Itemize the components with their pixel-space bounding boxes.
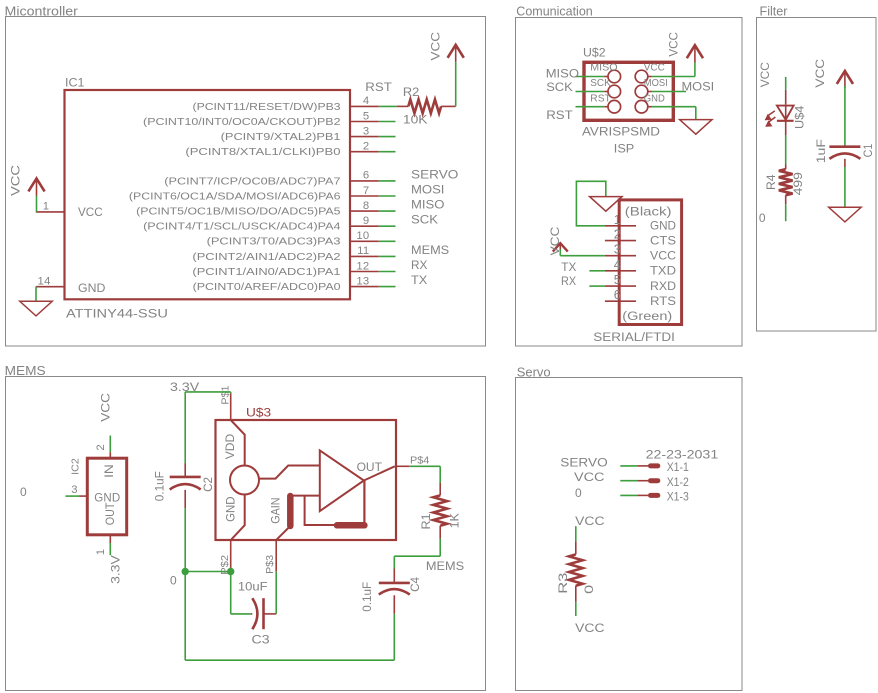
U$3 GND slope	[224, 495, 245, 540]
svg-text:(PCINT6/OC1A/SDA/MOSI/ADC6)PA6: (PCINT6/OC1A/SDA/MOSI/ADC6)PA6	[129, 192, 341, 202]
ground GND left	[20, 287, 52, 316]
svg-text:10K: 10K	[403, 112, 428, 126]
supply VCC left	[9, 165, 45, 212]
svg-text:IN: IN	[102, 464, 116, 478]
svg-text:X1-1: X1-1	[667, 462, 689, 475]
supply VCC U$2	[666, 32, 703, 63]
svg-text:(PCINT5/OC1B/MISO/DO/ADC5)PA5: (PCINT5/OC1B/MISO/DO/ADC5)PA5	[136, 207, 340, 217]
net label SERVO	[560, 455, 607, 469]
net label 0 MEMS	[170, 574, 177, 588]
svg-text:Servo: Servo	[517, 364, 551, 379]
U$3 amp triangle	[320, 450, 364, 511]
svg-text:VCC: VCC	[9, 165, 22, 196]
svg-text:(PCINT4/T1/SCL/USCK/ADC4)PA4: (PCINT4/T1/SCL/USCK/ADC4)PA4	[143, 222, 340, 232]
svg-text:P$3: P$3	[265, 555, 275, 574]
IC2 pin 1 OUT	[95, 502, 117, 555]
svg-text:AVRISPSMD: AVRISPSMD	[582, 124, 660, 138]
svg-text:VCC: VCC	[98, 393, 112, 422]
resistor R3	[569, 554, 583, 602]
svg-text:VCC: VCC	[428, 32, 442, 60]
svg-text:4: 4	[614, 258, 621, 272]
svg-text:2: 2	[363, 141, 370, 153]
svg-text:TX: TX	[411, 273, 428, 287]
wire bottom loop	[185, 572, 394, 661]
svg-text:1K: 1K	[448, 512, 462, 528]
wire 3.3V horizontal	[185, 392, 231, 393]
svg-text:1: 1	[43, 201, 50, 213]
svg-text:1: 1	[614, 213, 621, 227]
supply VCC FTDI	[548, 227, 568, 256]
svg-text:14: 14	[38, 276, 51, 288]
label (Black)	[625, 205, 672, 218]
svg-text:RST: RST	[590, 94, 610, 105]
svg-text:R4: R4	[764, 174, 778, 190]
label ISP	[614, 142, 634, 156]
ground U$2	[680, 120, 712, 135]
wire U$2 MOSI	[648, 91, 686, 93]
value 0.1uF C2	[152, 471, 166, 501]
label IC2	[71, 458, 81, 475]
net label MISO ic1	[411, 198, 445, 211]
FTDI pin 4 TXD	[605, 258, 676, 278]
label ATTINY44-SSU	[66, 307, 168, 320]
svg-text:SCK: SCK	[546, 81, 573, 94]
svg-text:13: 13	[356, 275, 369, 287]
wire pin4 to R2	[397, 105, 409, 107]
FTDI pin 3 VCC	[605, 243, 676, 263]
U$3 gain bar	[287, 496, 294, 526]
svg-text:SCK: SCK	[411, 213, 439, 226]
svg-text:3.3V: 3.3V	[108, 555, 122, 584]
label C2	[201, 477, 215, 492]
net label SCK ic1	[411, 213, 439, 226]
label SERIAL/FTDI	[593, 330, 675, 344]
svg-text:R2: R2	[403, 85, 419, 99]
svg-text:MISO: MISO	[590, 63, 617, 73]
svg-text:U$3: U$3	[246, 405, 271, 419]
frame Micontroller	[5, 4, 486, 346]
svg-text:P$4: P$4	[410, 456, 430, 466]
net label 0 IC2	[20, 485, 27, 499]
IC2 pin 3 GND	[66, 484, 121, 504]
svg-text:MEMS: MEMS	[411, 243, 449, 257]
svg-text:IC1: IC1	[65, 76, 85, 90]
svg-text:RST: RST	[365, 81, 392, 94]
FTDI pin 2 CTS	[605, 228, 676, 248]
wire U$2 GND	[648, 107, 696, 120]
value 1uF	[814, 139, 828, 163]
microcontroller IC1 body	[65, 90, 351, 299]
wire C3 left	[231, 572, 251, 614]
svg-text:R3: R3	[557, 573, 570, 594]
svg-text:9: 9	[363, 215, 370, 227]
svg-text:SCK: SCK	[590, 78, 611, 89]
capacitor C1	[829, 147, 860, 167]
net label MEMS ic1	[411, 243, 449, 257]
IC1 pin 3 (PCINT9/XTAL2)PB1	[221, 125, 396, 142]
net label VCC below R3	[575, 621, 604, 635]
svg-text:C1: C1	[863, 144, 876, 158]
wire VCC to C1	[844, 86, 846, 147]
connector SERIAL/FTDI body	[619, 200, 681, 325]
U$3 VDD slope	[223, 420, 245, 466]
U$3 gain slope	[276, 526, 290, 540]
IC1 pin 13 (PCINT0/AREF/ADC0)PA0	[193, 275, 396, 292]
capacitor C4	[379, 569, 410, 614]
svg-text:(Black): (Black)	[625, 205, 672, 218]
svg-text:ATTINY44-SSU: ATTINY44-SSU	[66, 307, 168, 320]
frame Filter	[757, 3, 877, 331]
label U$3	[246, 405, 271, 419]
U$3 pin P$1	[221, 385, 231, 420]
wire R3 down	[575, 602, 577, 616]
net label 0 servo	[575, 486, 582, 500]
IC1 pin 11 (PCINT2/AIN1/ADC2)PA2	[192, 245, 395, 262]
svg-text:Micontroller: Micontroller	[5, 4, 79, 18]
IC1 pin 14 GND	[36, 276, 106, 295]
net label 3.3V IC2	[108, 555, 122, 584]
svg-text:GND: GND	[644, 93, 665, 104]
svg-text:SERIAL/FTDI: SERIAL/FTDI	[593, 330, 675, 344]
svg-text:P$1: P$1	[221, 385, 231, 404]
svg-text:MEMS: MEMS	[5, 364, 46, 379]
svg-text:VCC: VCC	[575, 621, 604, 635]
net label 3.3V	[170, 380, 199, 394]
net label RX	[561, 276, 576, 289]
wire VCC to R3	[575, 526, 577, 554]
svg-text:(PCINT10/INT0/OC0A/CKOUT)PB2: (PCINT10/INT0/OC0A/CKOUT)PB2	[143, 117, 340, 127]
wire 3.3V down to C2	[184, 392, 186, 463]
svg-text:0: 0	[170, 574, 177, 588]
FTDI pin 6 RTS	[605, 288, 676, 308]
label (Green)	[622, 309, 672, 323]
net label VCC filter-left	[758, 62, 772, 88]
svg-text:VDD: VDD	[223, 434, 237, 460]
wire C2 to junction	[184, 508, 186, 571]
IC1 pin 7 (PCINT6/OC1A/SDA/MOSI/ADC6)PA6	[129, 185, 396, 202]
svg-text:(PCINT3/T0/ADC3)PA3: (PCINT3/T0/ADC3)PA3	[207, 237, 341, 247]
U$3 bottom bar	[337, 522, 364, 529]
svg-text:TXD: TXD	[650, 264, 676, 277]
U$3 gain wires	[290, 496, 334, 525]
U$3 input path	[259, 466, 320, 479]
svg-text:0.1uF: 0.1uF	[152, 471, 166, 501]
svg-text:1uF: 1uF	[814, 139, 828, 163]
LED U$4	[777, 104, 794, 135]
svg-text:C3: C3	[252, 632, 270, 646]
IC1 pin 1 VCC	[36, 201, 103, 220]
wire U$2 VCC	[648, 62, 695, 77]
IC2 pin 2 IN	[95, 436, 116, 478]
svg-text:3: 3	[71, 484, 78, 496]
svg-text:C2: C2	[201, 477, 215, 492]
wire R4 down	[785, 204, 787, 221]
svg-text:0: 0	[583, 585, 596, 594]
svg-text:VCC: VCC	[650, 249, 676, 263]
svg-text:(PCINT2/AIN1/ADC2)PA2: (PCINT2/AIN1/ADC2)PA2	[192, 252, 340, 262]
wire TX	[589, 270, 605, 272]
net label VCC above R3	[575, 514, 604, 528]
svg-text:U$4: U$4	[793, 105, 807, 129]
wire junction to P$2	[185, 571, 231, 573]
svg-text:RX: RX	[561, 276, 576, 289]
U$3 pin P$3	[265, 540, 276, 574]
wire RST	[576, 106, 609, 108]
svg-text:0: 0	[575, 486, 582, 500]
svg-text:GND: GND	[224, 497, 237, 522]
label C1	[863, 144, 876, 158]
net label RST	[546, 109, 573, 122]
mems mic U$3 body	[216, 420, 397, 540]
svg-text:MOSI: MOSI	[411, 183, 444, 196]
svg-text:(PCINT1/AIN0/ADC1)PA1: (PCINT1/AIN0/ADC1)PA1	[192, 267, 340, 277]
net label RX ic1	[411, 258, 427, 272]
label AVRISPSMD	[582, 124, 660, 138]
svg-text:0.1uF: 0.1uF	[360, 582, 374, 612]
svg-text:VCC: VCC	[758, 62, 772, 88]
svg-text:0: 0	[759, 211, 766, 225]
svg-text:5: 5	[363, 110, 370, 122]
label R4	[764, 174, 778, 190]
label U$4	[793, 105, 807, 129]
label C4	[408, 577, 422, 592]
U$3 pin P$2	[220, 540, 230, 575]
capacitor C3	[251, 598, 276, 629]
net label TX	[561, 260, 576, 274]
IC1 pin 2 (PCINT8/XTAL1/CLKI)PB0	[185, 141, 395, 158]
label R1	[419, 513, 433, 529]
label R2	[403, 85, 419, 99]
resistor R1	[433, 483, 447, 539]
connector pin X1-2	[620, 476, 688, 489]
value 1K	[448, 512, 462, 528]
label 22-23-2031	[646, 447, 719, 461]
svg-text:11: 11	[357, 245, 369, 257]
svg-text:GND: GND	[78, 281, 106, 295]
svg-text:RST: RST	[546, 109, 573, 122]
connector U$2 body	[584, 62, 673, 120]
svg-text:VCC: VCC	[575, 514, 604, 528]
label C3	[252, 632, 270, 646]
svg-text:MOSI: MOSI	[644, 78, 668, 89]
svg-text:12: 12	[356, 260, 369, 272]
U$2 pads	[608, 70, 648, 113]
wire P$4 to R1	[409, 466, 440, 483]
svg-text:R1: R1	[419, 513, 433, 529]
net label VCC IC2	[98, 393, 112, 422]
svg-text:GAIN: GAIN	[270, 497, 283, 523]
svg-text:CTS: CTS	[650, 234, 676, 247]
value 499	[791, 172, 805, 195]
svg-text:OUT: OUT	[357, 460, 383, 474]
svg-text:6: 6	[363, 170, 370, 182]
value 10K	[403, 112, 428, 126]
label GAIN	[270, 497, 283, 523]
svg-text:VCC: VCC	[78, 205, 103, 219]
svg-text:7: 7	[363, 185, 370, 197]
svg-text:VCC: VCC	[574, 470, 605, 484]
svg-text:5: 5	[614, 273, 621, 287]
svg-text:6: 6	[614, 288, 621, 302]
svg-text:MISO: MISO	[546, 67, 580, 80]
svg-text:8: 8	[363, 200, 370, 212]
svg-text:(PCINT8/XTAL1/CLKI)PB0: (PCINT8/XTAL1/CLKI)PB0	[185, 148, 340, 158]
label R3	[557, 573, 570, 594]
wire LED to R4	[785, 135, 787, 169]
svg-text:0: 0	[20, 485, 27, 499]
svg-text:(PCINT9/XTAL2)PB1: (PCINT9/XTAL2)PB1	[221, 132, 341, 142]
net label TX ic1	[411, 273, 428, 287]
svg-text:22-23-2031: 22-23-2031	[646, 447, 719, 461]
svg-text:10uF: 10uF	[238, 580, 268, 593]
net label MISO	[546, 67, 580, 80]
net label MOSI ic1	[411, 183, 444, 196]
svg-text:Comunication: Comunication	[516, 3, 592, 18]
ground FTDI	[590, 197, 622, 212]
label IC1	[65, 76, 85, 90]
svg-text:2: 2	[614, 228, 621, 242]
wire C1 to GND	[844, 167, 846, 207]
svg-text:U$2: U$2	[583, 46, 606, 60]
net label VCC servo	[574, 470, 605, 484]
wire FTDI pin1 to GND	[576, 181, 605, 226]
svg-text:RX: RX	[411, 258, 427, 272]
resistor R2	[408, 100, 455, 114]
junction left	[182, 568, 189, 575]
svg-text:MEMS: MEMS	[426, 559, 464, 573]
value 0 R3	[583, 585, 596, 594]
IC1 pin 8 (PCINT5/OC1B/MISO/DO/ADC5)PA5	[136, 200, 395, 217]
svg-text:MISO: MISO	[411, 198, 445, 211]
U$2 pin names	[590, 63, 668, 105]
wire RX	[589, 285, 605, 287]
frame Comunication	[516, 3, 743, 346]
svg-text:Filter: Filter	[759, 3, 788, 18]
svg-text:SERVO: SERVO	[560, 455, 607, 469]
U$3 mic circle	[230, 466, 259, 495]
svg-text:VCC: VCC	[666, 32, 680, 57]
svg-text:2: 2	[95, 444, 107, 451]
svg-text:GND: GND	[650, 221, 676, 233]
svg-text:SERVO: SERVO	[411, 167, 458, 181]
svg-text:VCC: VCC	[813, 59, 827, 88]
IC1 pin 9 (PCINT4/T1/SCL/USCK/ADC4)PA4	[143, 215, 395, 232]
IC1 pin 10 (PCINT3/T0/ADC3)PA3	[207, 230, 396, 247]
wire FTDI VCC	[560, 249, 605, 256]
svg-text:VCC: VCC	[644, 63, 665, 74]
resistor R4	[779, 169, 793, 204]
net label MEMS	[426, 559, 464, 573]
U$3 output wire	[364, 466, 395, 480]
U$3 feedback wire	[363, 481, 365, 525]
svg-text:499: 499	[791, 172, 805, 195]
wire MISO	[576, 76, 609, 78]
FTDI pin 1 GND	[605, 213, 676, 233]
svg-text:(PCINT11/RESET/DW)PB3: (PCINT11/RESET/DW)PB3	[193, 102, 341, 113]
wire C3 to P$3	[275, 572, 277, 614]
IC1 pin 6 (PCINT7/ICP/OC0B/ADC7)PA7	[164, 170, 395, 187]
FTDI pin 5 RXD	[605, 273, 676, 293]
svg-text:3: 3	[363, 125, 370, 137]
svg-text:VCC: VCC	[548, 227, 562, 256]
label OUT U$3	[357, 460, 383, 474]
svg-text:10: 10	[356, 230, 369, 242]
svg-text:C4: C4	[408, 577, 422, 592]
IC1 pin 5 (PCINT10/INT0/OC0A/CKOUT)PB2	[143, 110, 395, 127]
wire C4 up	[394, 539, 440, 569]
frame MEMS	[5, 364, 486, 691]
svg-text:MOSI: MOSI	[681, 80, 714, 94]
supply VCC right	[428, 32, 464, 62]
net label SCK	[546, 81, 573, 94]
supply VCC filter-right	[813, 59, 853, 88]
regulator IC2 body	[87, 458, 126, 535]
connector pin X1-3	[620, 491, 688, 504]
value 0.1uF C4	[360, 582, 374, 612]
net label RST	[365, 81, 392, 94]
net label SERVO	[411, 167, 458, 181]
svg-text:(PCINT7/ICP/OC0B/ADC7)PA7: (PCINT7/ICP/OC0B/ADC7)PA7	[164, 177, 340, 187]
junction P$2	[227, 568, 234, 575]
LED arrows	[766, 111, 776, 126]
svg-text:RXD: RXD	[650, 279, 676, 293]
capacitor C2	[170, 463, 201, 508]
svg-text:3: 3	[614, 243, 621, 257]
ground filter	[829, 207, 861, 222]
svg-text:4: 4	[363, 95, 370, 107]
svg-text:(PCINT0/AREF/ADC0)PA0: (PCINT0/AREF/ADC0)PA0	[193, 282, 341, 292]
IC1 pin 4 (PCINT11/RESET/DW)PB3	[193, 95, 397, 112]
wire VCC to LED	[785, 77, 787, 104]
frame Servo	[516, 364, 743, 690]
svg-text:(Green): (Green)	[622, 309, 672, 323]
svg-text:OUT: OUT	[105, 502, 117, 525]
svg-text:1: 1	[95, 549, 107, 556]
wire SCK	[576, 91, 609, 93]
label U$2	[583, 46, 606, 60]
svg-text:TX: TX	[561, 260, 576, 274]
net label MOSI	[681, 80, 714, 94]
U$3 pin P$4	[396, 456, 430, 466]
svg-text:RTS: RTS	[650, 295, 676, 308]
svg-text:ISP: ISP	[614, 142, 634, 156]
wire R2 to VCC	[455, 62, 457, 107]
IC1 pin 12 (PCINT1/AIN0/ADC1)PA1	[192, 260, 395, 277]
svg-text:X1-3: X1-3	[667, 491, 689, 504]
svg-text:GND: GND	[94, 492, 120, 504]
net label 0 filter	[759, 211, 766, 225]
value 10uF	[238, 580, 268, 593]
svg-text:IC2: IC2	[71, 458, 81, 475]
svg-text:X1-2: X1-2	[667, 476, 689, 489]
connector pin X1-1	[620, 462, 688, 475]
